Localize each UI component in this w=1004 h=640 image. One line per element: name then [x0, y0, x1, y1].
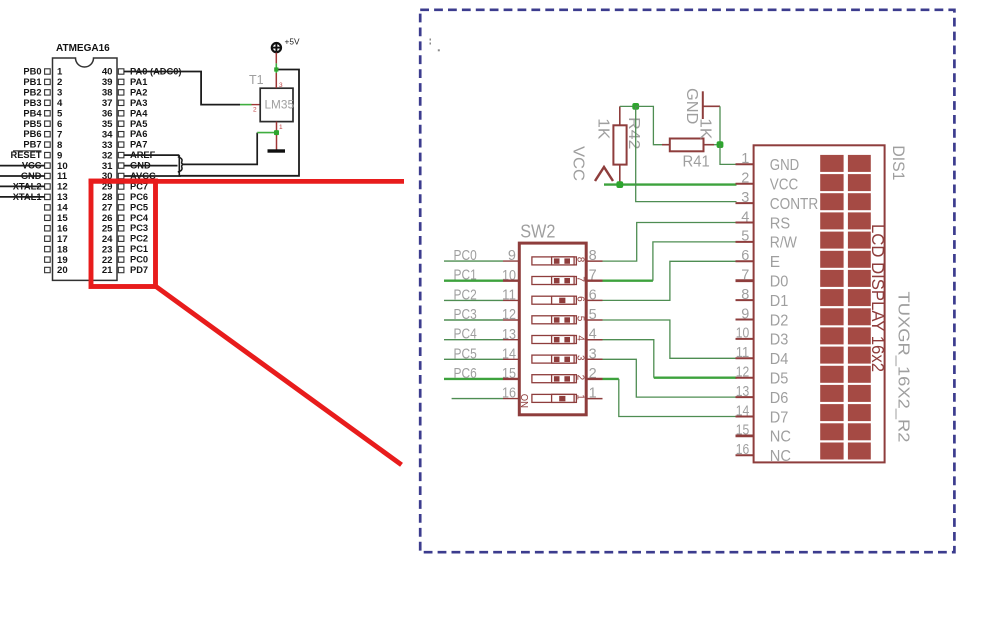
svg-text:6: 6 [57, 119, 62, 130]
svg-text:13: 13 [57, 192, 68, 203]
svg-text:14: 14 [736, 403, 750, 419]
svg-text:PC0: PC0 [454, 247, 477, 264]
svg-text:ATMEGA16: ATMEGA16 [56, 43, 110, 54]
resistor R41 body [670, 139, 704, 152]
pin numbers right 40-21 [102, 67, 113, 277]
pin labels PB0-PB7 [23, 67, 42, 150]
svg-text:4: 4 [574, 335, 585, 341]
svg-text:23: 23 [102, 244, 113, 255]
wire SW2 pin3 to D5 [603, 359, 737, 397]
svg-text:12: 12 [502, 307, 516, 323]
pin 13 display stub [736, 396, 754, 398]
wire PA0/ADC0 to LM35 [124, 72, 260, 105]
svg-text:33: 33 [102, 140, 113, 151]
pin 1 display stub [736, 163, 754, 165]
pin label RESET with overline [11, 150, 42, 160]
net merge brace [178, 155, 184, 176]
wire R42 top to junction [620, 105, 636, 107]
svg-text:R42: R42 [625, 117, 642, 150]
svg-text:PC2: PC2 [454, 286, 477, 303]
svg-text:19: 19 [57, 255, 68, 266]
svg-text:PA3: PA3 [130, 98, 147, 108]
svg-text:13: 13 [736, 384, 750, 400]
svg-text:9: 9 [741, 306, 749, 322]
wire PC6 [444, 378, 503, 380]
svg-text:16: 16 [502, 386, 516, 402]
svg-text:R/W: R/W [770, 235, 797, 252]
svg-text:DIS1: DIS1 [889, 145, 908, 180]
svg-text:14: 14 [57, 203, 68, 214]
svg-text:PA6: PA6 [130, 129, 147, 139]
svg-text:TUXGR_16X2_R2: TUXGR_16X2_R2 [895, 292, 912, 443]
svg-text:14: 14 [502, 346, 516, 362]
svg-text:PD7: PD7 [130, 265, 148, 275]
svg-text:6: 6 [741, 248, 749, 264]
svg-text:7: 7 [741, 268, 749, 284]
svg-text:LCD DISPLAY 16x2: LCD DISPLAY 16x2 [868, 224, 888, 372]
svg-text:PC4: PC4 [454, 326, 477, 343]
svg-text:PB6: PB6 [23, 129, 41, 139]
svg-text:18: 18 [57, 244, 68, 255]
svg-text:15: 15 [57, 213, 68, 224]
wire R41 right to junction [704, 144, 715, 146]
wire PC4 [444, 339, 503, 341]
svg-text:6: 6 [574, 296, 585, 302]
pin 8 display stub [736, 299, 754, 301]
wire SW2 pin4 to D4 [603, 340, 737, 378]
svg-text:1: 1 [574, 394, 585, 400]
svg-text:PA2: PA2 [130, 87, 147, 97]
wire LM35 pin1 to ground [257, 122, 279, 150]
svg-text:RS: RS [770, 215, 790, 232]
svg-text:T1: T1 [249, 73, 264, 87]
svg-text:4: 4 [741, 209, 749, 225]
svg-text:7: 7 [57, 129, 62, 140]
svg-text:16: 16 [736, 442, 750, 458]
svg-text:28: 28 [102, 192, 113, 203]
svg-text:ON: ON [518, 394, 530, 408]
pin 9 display stub [736, 319, 754, 321]
svg-text:2: 2 [57, 77, 62, 88]
wire junction to display pin1 [720, 144, 737, 164]
svg-text:NC: NC [770, 448, 791, 465]
svg-text:2: 2 [741, 171, 749, 187]
svg-text:D3: D3 [770, 332, 789, 349]
svg-text:11: 11 [57, 171, 68, 182]
svg-text:3: 3 [574, 355, 585, 361]
svg-text:32: 32 [102, 150, 113, 161]
svg-text:3: 3 [57, 88, 62, 99]
switch SW2 box [519, 243, 586, 415]
svg-text:PC0: PC0 [130, 255, 148, 265]
svg-text:10: 10 [736, 326, 750, 342]
svg-text:1K: 1K [594, 118, 611, 139]
svg-text:PA4: PA4 [130, 108, 148, 118]
svg-text:+5V: +5V [285, 37, 300, 47]
svg-text:D2: D2 [770, 312, 789, 329]
svg-text:D7: D7 [770, 409, 789, 426]
svg-text:PC5: PC5 [454, 345, 477, 362]
wire junction to CONTR pin3 [636, 106, 737, 201]
svg-text:20: 20 [57, 265, 68, 276]
svg-text:R41: R41 [683, 154, 710, 171]
svg-text:11: 11 [736, 345, 750, 361]
wire VCC rail to display pin2 [604, 183, 737, 185]
svg-text:PB2: PB2 [23, 87, 41, 97]
wire SW2 pin8 to RS [603, 223, 737, 262]
pin 10 display stub [736, 338, 754, 340]
wire PC1 [444, 280, 503, 282]
pin 14 display stub [736, 416, 754, 418]
svg-text:GND: GND [683, 88, 700, 124]
wire SW2 pin5 to D3 [603, 320, 737, 358]
wire PC0 [444, 260, 503, 262]
power VCC symbol [595, 167, 613, 181]
wire AREF [124, 154, 179, 156]
svg-text:1: 1 [57, 67, 63, 78]
svg-text:2: 2 [574, 375, 585, 381]
svg-text:D0: D0 [770, 274, 789, 291]
svg-text:PC5: PC5 [130, 202, 148, 212]
svg-text:GND: GND [770, 157, 799, 174]
svg-text:PC6: PC6 [130, 192, 148, 202]
svg-text:35: 35 [102, 119, 113, 130]
svg-text:9: 9 [508, 248, 516, 264]
pin 4 display stub [736, 222, 754, 224]
wire XTAL1 to left edge [0, 196, 45, 198]
pin numbers left 1-20 [57, 67, 68, 277]
svg-text:E: E [770, 254, 780, 271]
svg-text:9: 9 [57, 150, 62, 161]
wire PC3 [444, 319, 503, 321]
svg-text:3: 3 [279, 82, 283, 89]
dashed selection box [420, 10, 954, 552]
svg-text:1: 1 [741, 151, 749, 167]
net line bottom to +5V corner [181, 70, 300, 176]
svg-text:D6: D6 [770, 390, 789, 407]
wire AVCC [124, 175, 181, 177]
pin 11 display stub [736, 357, 754, 359]
svg-text:37: 37 [102, 98, 113, 109]
svg-text:PC4: PC4 [130, 213, 149, 223]
svg-text:39: 39 [102, 77, 113, 88]
pin 7 display stub [736, 279, 754, 282]
wire SW2 pin6 to E [603, 261, 737, 300]
zoom highlight rectangle [91, 181, 156, 287]
svg-text:PA5: PA5 [130, 119, 147, 129]
pin 3 display stub [736, 202, 754, 204]
wire PC5 [444, 358, 503, 360]
resistor R42 body [613, 125, 626, 164]
svg-text:PC1: PC1 [454, 267, 477, 284]
svg-text:PB1: PB1 [23, 77, 41, 87]
power +5V symbol [272, 37, 300, 53]
display DIS1 box [754, 145, 885, 462]
pin 12 display stub [736, 377, 754, 379]
svg-text:7: 7 [574, 276, 585, 282]
junction dot node R42/R41/CONTR [632, 103, 639, 110]
svg-text:22: 22 [102, 255, 113, 266]
svg-text:1: 1 [279, 124, 283, 131]
svg-text:21: 21 [102, 265, 113, 276]
wire R42 top lead [619, 106, 621, 125]
svg-text:D1: D1 [770, 293, 789, 310]
pin 2 display stub [736, 183, 754, 185]
svg-text:24: 24 [102, 234, 113, 245]
pin 6 display stub [736, 260, 754, 262]
sensor T1 LM35 box [260, 88, 293, 121]
wire PC2 [444, 299, 503, 301]
svg-text:PC3: PC3 [130, 223, 148, 233]
svg-text:31: 31 [102, 161, 113, 172]
svg-text:36: 36 [102, 109, 113, 120]
pin 5 display stub [736, 241, 754, 243]
svg-text:10: 10 [57, 161, 68, 172]
svg-text:SW2: SW2 [520, 220, 555, 241]
svg-text:5: 5 [574, 316, 585, 322]
svg-text:PC3: PC3 [454, 306, 477, 323]
svg-text:PB7: PB7 [23, 140, 41, 150]
svg-text:NC: NC [770, 429, 791, 446]
svg-text:PA7: PA7 [130, 140, 147, 150]
svg-text:5: 5 [57, 109, 63, 120]
svg-text:4: 4 [57, 98, 63, 109]
svg-text:PA1: PA1 [130, 77, 147, 87]
wire GND right [124, 165, 178, 167]
svg-text:38: 38 [102, 88, 113, 99]
stray mark b [438, 49, 440, 51]
ground GND net stub [703, 91, 720, 144]
svg-text:PC6: PC6 [454, 365, 477, 382]
svg-text:12: 12 [736, 365, 750, 381]
wire junction to R41 left [636, 106, 662, 144]
svg-text:26: 26 [102, 213, 113, 224]
svg-text:D4: D4 [770, 351, 789, 368]
svg-text:15: 15 [736, 423, 750, 439]
svg-text:VCC: VCC [570, 146, 587, 181]
wire VCC to left edge [0, 165, 45, 167]
ground symbol [268, 149, 286, 152]
wire R42 bottom lead [619, 165, 621, 185]
svg-text:PC1: PC1 [130, 244, 148, 254]
wire GND to left edge [0, 175, 45, 177]
zoom line diagonal [156, 286, 402, 465]
wire row16 [452, 398, 503, 400]
svg-text:VCC: VCC [770, 177, 799, 194]
svg-text:PB4: PB4 [23, 108, 42, 118]
wire +5V to LM35 pin3 [274, 53, 278, 89]
svg-text:25: 25 [102, 223, 113, 234]
junction dot GND/R41 [717, 141, 724, 148]
svg-text:8: 8 [741, 287, 749, 303]
svg-text:17: 17 [57, 234, 68, 245]
IC ATMEGA16 body [53, 58, 118, 280]
pin 16 display stub [736, 454, 754, 456]
svg-text:CONTR: CONTR [770, 196, 818, 213]
svg-text:D5: D5 [770, 371, 789, 388]
svg-text:PB0: PB0 [23, 67, 41, 77]
svg-text:3: 3 [741, 190, 749, 206]
svg-text:11: 11 [502, 288, 516, 304]
pin boxes left side pins 1-20 [45, 69, 51, 273]
junction dot VCC/R42 [616, 181, 623, 188]
svg-text:40: 40 [102, 67, 113, 78]
zoom line horizontal [89, 179, 404, 184]
svg-text:PC2: PC2 [130, 234, 148, 244]
svg-text:8: 8 [57, 140, 63, 151]
stray mark a [430, 39, 432, 41]
svg-text:5: 5 [741, 229, 749, 245]
display LCD blocks [820, 155, 871, 460]
switch slots 1-8 [532, 257, 577, 403]
svg-text:LM35: LM35 [265, 98, 295, 112]
net line to LM35 bottom [184, 133, 257, 165]
wire SW2 pin2 to D6 [603, 379, 737, 417]
svg-text:RESET: RESET [11, 150, 42, 160]
svg-text:PB3: PB3 [23, 98, 41, 108]
wire XTAL2 to left edge [0, 185, 45, 187]
switch rotated digits 8-1 [574, 257, 585, 401]
svg-text:PB5: PB5 [23, 119, 41, 129]
svg-text:34: 34 [102, 129, 113, 140]
svg-text:12: 12 [57, 182, 68, 193]
svg-text:27: 27 [102, 203, 113, 214]
pin boxes right side pins 40-21 [118, 69, 124, 273]
svg-text:2: 2 [253, 107, 257, 114]
svg-text:16: 16 [57, 223, 68, 234]
pin 15 display stub [736, 434, 754, 437]
svg-text:8: 8 [574, 257, 585, 263]
wire SW2 pin7 to R/W [603, 242, 737, 281]
